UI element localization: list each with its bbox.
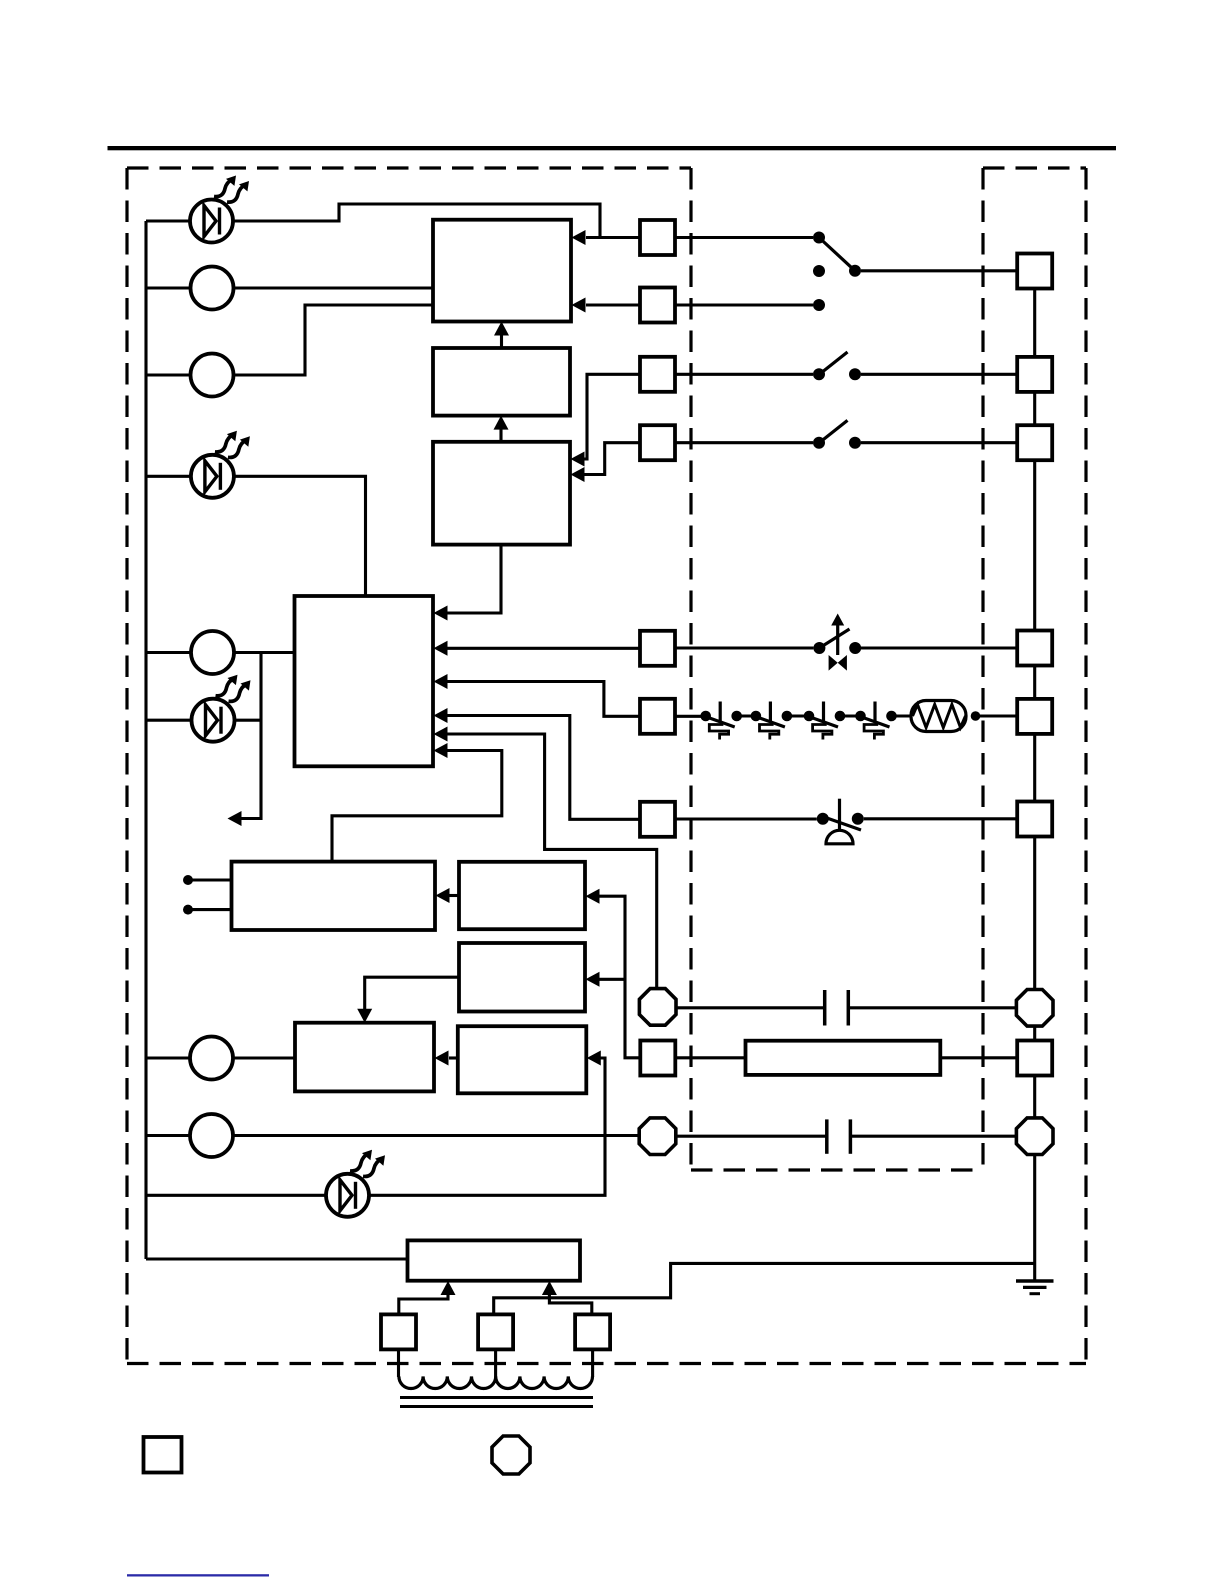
- wire row lamp L2: [146, 373, 191, 376]
- arrow into U1 a: [572, 230, 586, 245]
- wire LED3 to branch: [235, 719, 262, 722]
- wire S1 to selector: [675, 236, 813, 239]
- switch SW2: [813, 352, 861, 380]
- footer link line: [127, 1574, 269, 1576]
- arrow into U1 b: [572, 298, 586, 313]
- lamp L2: [191, 354, 234, 397]
- connector S4: [640, 425, 675, 460]
- arrow into U8: [435, 1051, 449, 1066]
- wire row LED4: [146, 1194, 326, 1197]
- LED D3: [192, 671, 255, 742]
- wire S5 to U4: [447, 647, 640, 650]
- wire row LED1: [146, 219, 190, 222]
- wire row LED3: [146, 719, 192, 722]
- arrow into U4 a: [434, 606, 448, 621]
- lamp L4: [190, 1037, 233, 1080]
- wire row lamp L4: [146, 1056, 190, 1059]
- block U8: [295, 1023, 434, 1092]
- wire row lamp L5: [146, 1134, 190, 1137]
- tap lead b: [494, 1349, 497, 1377]
- wire S1 to U1: [586, 236, 640, 239]
- heater element R1: [911, 701, 966, 732]
- dashed enclosure top-left border: [127, 166, 691, 169]
- wire S4 to U3: [584, 443, 640, 475]
- block U10 power supply: [408, 1240, 581, 1280]
- terminal T3: [1017, 425, 1052, 460]
- connector S7: [640, 802, 675, 837]
- flow switch FS1: [813, 614, 861, 671]
- block U2: [433, 348, 570, 416]
- LED D1: [190, 172, 253, 243]
- arrow U2 to U1: [494, 322, 509, 336]
- selector switch SW1: [813, 232, 861, 312]
- wire U2 to U1: [500, 335, 503, 348]
- arrow into U3 a: [571, 452, 585, 467]
- terminal T2: [1017, 357, 1052, 392]
- wire row LED2: [146, 475, 191, 478]
- wire TS3-TS4: [838, 714, 861, 717]
- wire U3 to U4: [447, 545, 501, 613]
- lamp L3: [191, 631, 234, 674]
- arrow U3 to U2: [494, 416, 509, 430]
- arrow into U4 f: [434, 743, 448, 758]
- sensor element R2: [746, 1041, 941, 1075]
- wire S7 to PS1: [675, 817, 817, 820]
- wire TS4 to heater: [891, 714, 911, 717]
- block U6: [459, 862, 585, 929]
- dashed enclosure left border: [125, 168, 128, 1364]
- arrow into U10 a: [441, 1281, 456, 1295]
- wire T7-J4: [1033, 1076, 1036, 1119]
- dashed partition line B: [981, 168, 984, 1170]
- wire T4-T5: [1033, 666, 1036, 699]
- lamp L1: [191, 267, 234, 310]
- wire L4 to block U8: [233, 1056, 295, 1059]
- wire J3 to C2: [676, 1135, 827, 1138]
- wire row lamp L3: [146, 651, 191, 654]
- wire S6 to U4: [447, 682, 640, 717]
- wire S2 to selector: [675, 303, 813, 306]
- wire bus to PSU: [146, 1257, 408, 1260]
- wire T5-T6: [1033, 734, 1036, 802]
- LED D4: [326, 1146, 389, 1217]
- legend terminal symbol: [144, 1437, 182, 1473]
- wire C1 to J2: [848, 1006, 1016, 1009]
- arrow into U3 b: [571, 467, 585, 482]
- connector S6: [640, 699, 675, 734]
- arrow left end: [228, 811, 242, 826]
- wire L2 to block U1: [234, 305, 434, 375]
- wire T6-J2: [1033, 837, 1036, 990]
- wire PS1 to T6: [864, 817, 1017, 820]
- header rule: [108, 146, 1117, 150]
- transformer winding: [399, 1376, 593, 1388]
- wire row lamp L1: [146, 286, 191, 289]
- block U4: [295, 596, 434, 766]
- wire SW3 to T3: [861, 441, 1017, 444]
- arrow into U4 d: [434, 708, 448, 723]
- connector S2: [640, 288, 675, 323]
- wire T3-T4: [1033, 460, 1036, 630]
- capacitor C1: [823, 990, 827, 1026]
- legend connector symbol: [492, 1436, 530, 1474]
- stub dot b: [183, 905, 193, 915]
- wire T1-T2: [1033, 289, 1036, 357]
- dashed partition line A: [689, 168, 692, 1170]
- wire S3 to SW2: [675, 373, 813, 376]
- wire S3 to U3: [584, 374, 640, 459]
- wire LED2 to block U4 top: [234, 476, 366, 596]
- connector S3: [640, 357, 675, 392]
- thermal switch TS4: [855, 702, 897, 740]
- connector S8: [640, 1041, 675, 1076]
- arrow into U6: [586, 889, 600, 904]
- arrow into U5: [436, 888, 450, 903]
- lamp L5: [190, 1114, 233, 1157]
- wire J2-T7: [1033, 1026, 1036, 1041]
- wire riser to U7: [599, 978, 625, 981]
- node dot: [971, 711, 981, 721]
- arrow into U8 top: [357, 1009, 372, 1023]
- transformer tap a: [381, 1314, 416, 1349]
- wire S5 to FS1: [675, 646, 813, 649]
- arrow into U7: [586, 972, 600, 987]
- wire R2 to T7: [940, 1056, 1017, 1059]
- thermal switch TS1: [700, 702, 742, 740]
- transformer tap c: [575, 1314, 610, 1349]
- wire S8 to R2: [675, 1056, 745, 1059]
- wire J4 to ground: [1033, 1154, 1036, 1281]
- capacitor C2: [825, 1119, 829, 1153]
- wire J1 to C1: [676, 1006, 825, 1009]
- wire C2 to J4: [850, 1135, 1016, 1138]
- transformer tap b: [478, 1314, 513, 1349]
- dashed enclosure top-right border: [983, 166, 1086, 169]
- tap lead c: [591, 1349, 594, 1377]
- terminal T6: [1017, 802, 1052, 837]
- LED D2: [191, 427, 254, 498]
- wire U3 to U2: [499, 429, 502, 442]
- arrow into U4 e: [434, 727, 448, 742]
- thermal switch TS3: [804, 702, 846, 740]
- connector S5: [640, 631, 675, 666]
- wire J1 to U4: [447, 734, 657, 989]
- ground symbol: [1016, 1279, 1054, 1282]
- terminal T7: [1017, 1041, 1052, 1076]
- arrow into U10 b: [542, 1281, 557, 1295]
- terminal T1: [1017, 254, 1052, 289]
- wire Ta to U10: [399, 1295, 448, 1315]
- block U1: [433, 220, 571, 322]
- stub dot a: [183, 875, 193, 885]
- arrow into U9: [587, 1051, 601, 1066]
- wire FS1 to T4: [861, 646, 1017, 649]
- block U3: [433, 442, 570, 545]
- dashed enclosure right border: [1084, 168, 1087, 1364]
- connector J4: [1016, 1118, 1053, 1155]
- wire TS1-TS2: [737, 714, 756, 717]
- wire S4 to SW3: [675, 441, 813, 444]
- wire SW2 to T2: [861, 373, 1017, 376]
- left supply bus: [144, 221, 147, 1259]
- terminal T4: [1017, 631, 1052, 666]
- arrow into U4 b: [434, 641, 448, 656]
- block U5: [232, 862, 436, 930]
- wire U9 to U8: [449, 1056, 458, 1059]
- dashed partition bottom: [691, 1168, 983, 1171]
- thermal switch TS2: [751, 702, 793, 740]
- wire heater to T5: [976, 714, 1018, 717]
- tap lead a: [397, 1349, 400, 1377]
- arrow into U4 c: [434, 674, 448, 689]
- wire L1 to block U1: [234, 286, 434, 289]
- connector J3: [639, 1118, 676, 1155]
- stub wire a: [191, 878, 232, 881]
- wire S8 riser: [599, 896, 641, 1058]
- wire LED4 to block U9: [370, 1058, 606, 1195]
- wire U6 to U5: [449, 894, 459, 897]
- pressure switch PS1: [817, 799, 864, 844]
- wire SW1 to T1: [861, 269, 1017, 272]
- wire L5 to connector J3: [233, 1134, 639, 1137]
- stub wire b: [191, 908, 232, 911]
- wire TS2-TS3: [787, 714, 809, 717]
- switch SW3: [813, 420, 861, 448]
- wire LED1 to input node: [233, 204, 600, 238]
- block U9: [458, 1026, 587, 1093]
- wire U5 to U4: [332, 751, 502, 862]
- wire S7 to U4: [447, 716, 640, 820]
- ground return wire: [494, 1263, 1035, 1314]
- dashed enclosure bottom border: [127, 1362, 1086, 1365]
- transformer core: [400, 1396, 593, 1399]
- wire T2-T3: [1033, 392, 1036, 425]
- connector J1: [639, 989, 676, 1026]
- connector S1: [640, 220, 675, 255]
- wire branch down: [241, 653, 261, 819]
- wire S6 to thermal chain: [675, 715, 706, 718]
- wire U7 to U8: [365, 977, 459, 1009]
- terminal T5: [1017, 699, 1052, 734]
- wire S2 to U1: [586, 303, 640, 306]
- block U7: [459, 943, 585, 1012]
- wire Tc to U10: [549, 1295, 591, 1315]
- wire L3 to block U4: [234, 651, 295, 654]
- connector J2: [1016, 990, 1053, 1027]
